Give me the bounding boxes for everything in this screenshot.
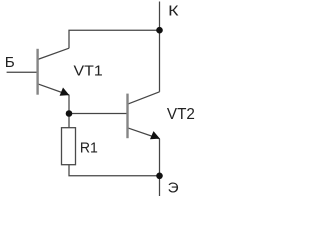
transistor VT1 base bar <box>36 49 38 95</box>
wire: VT1 emitter diagonal <box>38 84 70 95</box>
wire: VT1 emitter vertical through node A to R1 top <box>68 95 70 128</box>
wire: collector terminal lead (K) <box>159 2 161 31</box>
svg-text:R1: R1 <box>80 139 98 156</box>
wire: VT2 collector diagonal <box>128 92 160 104</box>
svg-text:Б: Б <box>5 54 15 71</box>
wire: R1 bottom to E node <box>69 165 160 176</box>
wire: VT2 emitter vertical to E node <box>159 139 161 176</box>
wire: emitter terminal lead (E) <box>159 176 161 196</box>
wire: K node down to VT2 collector <box>159 30 161 92</box>
transistor VT2 base bar <box>126 94 128 139</box>
node: E junction dot <box>156 173 163 180</box>
svg-text:Э: Э <box>168 179 179 196</box>
wire: VT1 collector vertical + top horizontal to K node <box>69 30 160 48</box>
wire: VT2 emitter diagonal <box>128 128 160 139</box>
wire: VT1 collector diagonal <box>38 48 69 59</box>
node: K junction dot <box>156 27 163 34</box>
resistor R1 body <box>62 128 76 165</box>
svg-text:VT2: VT2 <box>167 106 195 123</box>
wire: node A to VT2 base <box>69 113 128 115</box>
transistor VT2 emitter arrow <box>150 131 160 139</box>
transistor VT1 emitter arrow <box>60 88 70 96</box>
svg-text:VT1: VT1 <box>74 63 103 80</box>
node A: VT1 emitter / R1 / VT2 base junction dot <box>66 110 73 117</box>
wire: base terminal lead (B) <box>7 71 38 73</box>
svg-text:К: К <box>168 2 179 19</box>
